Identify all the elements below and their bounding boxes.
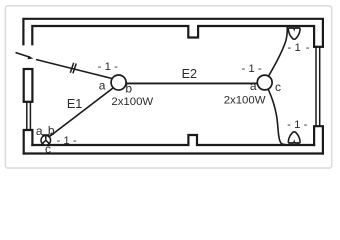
- wire E1: [47, 87, 115, 139]
- svg-text:- 1 -: - 1 -: [56, 135, 76, 147]
- svg-text:- 1 -: - 1 -: [98, 61, 118, 73]
- svg-text:E2: E2: [182, 67, 197, 81]
- window box right lower (corner piece): [314, 126, 323, 153]
- svg-text:E1: E1: [67, 97, 82, 111]
- switch (bottom-left, terminals a b c): [41, 135, 51, 145]
- svg-text:- 1 -: - 1 -: [241, 63, 261, 75]
- wall bottom inner with notch: [32, 135, 314, 145]
- svg-text:2x100W: 2x100W: [111, 96, 153, 108]
- svg-text:- 1: - 1: [288, 42, 301, 54]
- conductor slashes: [70, 63, 76, 74]
- lamp (left) 2x100W: [111, 75, 126, 90]
- wall bottom outer: [24, 152, 323, 154]
- supply arrow line: [16, 53, 31, 58]
- supply arrowhead: [28, 56, 34, 60]
- svg-text:- 1 -: - 1 -: [287, 119, 307, 131]
- svg-text:a: a: [36, 124, 43, 138]
- svg-text:b: b: [48, 123, 55, 137]
- wire lamp2 to bottom pear: [265, 83, 288, 145]
- svg-text:c: c: [45, 142, 51, 156]
- wire E2: [119, 82, 264, 84]
- svg-text:-: -: [306, 42, 310, 54]
- supply wire: [36, 60, 114, 80]
- svg-text:a: a: [250, 79, 257, 93]
- wall top-right cap: [314, 46, 323, 48]
- svg-text:2x100W: 2x100W: [224, 95, 266, 107]
- lamp (right) 2x100W: [257, 75, 272, 90]
- svg-text:a: a: [99, 78, 106, 92]
- svg-text:c: c: [275, 80, 281, 94]
- wire lamp2 to top pear: [265, 27, 288, 83]
- wall top inner with notch: [32, 26, 314, 47]
- window box left upper: [24, 69, 33, 102]
- E1 arrowhead at switch: [49, 132, 54, 136]
- wall top outer: [23, 19, 323, 47]
- window glazing left: [26, 102, 28, 130]
- window box left lower (corner piece): [24, 130, 33, 154]
- pear push-button top-right: [288, 28, 300, 39]
- svg-text:b: b: [125, 82, 132, 96]
- window glazing right: [315, 47, 317, 126]
- pear push-button bottom-right: [288, 132, 300, 143]
